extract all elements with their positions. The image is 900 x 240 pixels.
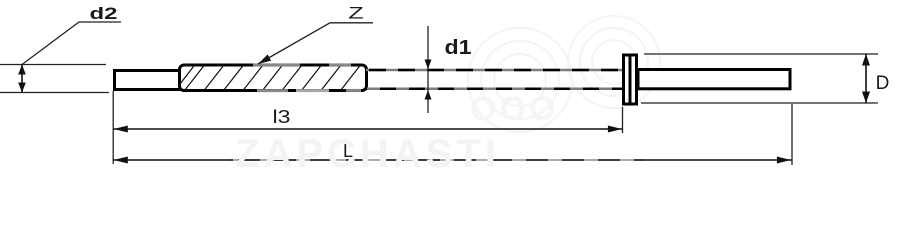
svg-text:D: D: [876, 73, 890, 94]
L right extension line: [791, 104, 793, 165]
threaded section body: [180, 65, 367, 91]
L dimension line middle dashes: [233, 159, 642, 161]
l3 arrow right: [608, 126, 622, 133]
Z leader line: [258, 23, 373, 64]
D bottom extension line: [641, 102, 878, 104]
d2 arrow up: [18, 65, 26, 75]
d1 dimension line: [427, 26, 429, 113]
l3 arrow left: [114, 126, 128, 133]
d1 arrow down: [425, 60, 432, 70]
L arrow left: [114, 157, 128, 164]
d2 arrow down: [18, 83, 26, 93]
L dimension line right solid: [642, 159, 792, 161]
svg-text:d2: d2: [90, 4, 118, 23]
Z leader arrowhead: [258, 55, 271, 65]
svg-text:Z: Z: [348, 5, 364, 23]
thread hatching: [180, 66, 360, 89]
l3 left extension line: [112, 91, 114, 164]
svg-text:OOO: OOO: [470, 90, 558, 128]
svg-text:d1: d1: [445, 37, 472, 59]
watermark arcs: [468, 16, 660, 132]
D top extension line: [644, 53, 878, 55]
d2 bottom extension line: [0, 92, 109, 94]
axle tip (left small cylinder): [115, 71, 181, 90]
d1 arrow up: [425, 90, 432, 100]
middle shaft top line (black dashes): [366, 69, 623, 72]
d2 top extension line: [0, 64, 106, 66]
L dimension line (gray watermark band): [230, 159, 645, 161]
D arrow up: [862, 54, 870, 66]
middle shaft top line (gray base): [366, 69, 623, 72]
svg-text:l3: l3: [273, 107, 291, 127]
middle shaft bottom line (black dashes): [366, 88, 623, 91]
middle shaft bottom line (gray base): [366, 88, 623, 91]
right shaft section: [638, 70, 790, 89]
d2 dimension line: [21, 65, 23, 93]
D arrow down: [862, 92, 870, 104]
svg-text:ZAPCHASTI: ZAPCHASTI: [235, 132, 500, 171]
d2 leader line: [22, 22, 121, 65]
collar inner rib: [629, 55, 632, 104]
l3 dimension line: [113, 128, 622, 130]
D dimension line: [865, 54, 867, 103]
L dimension line left solid: [113, 159, 233, 161]
l3 right extension line: [622, 107, 624, 133]
L arrow right: [777, 157, 791, 164]
collar outer: [624, 55, 637, 104]
thread edge watermark gray patches: [253, 65, 361, 91]
